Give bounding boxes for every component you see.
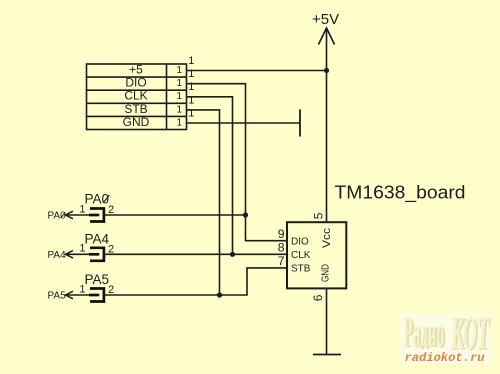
connector J1 row labels <box>123 62 150 129</box>
wire DIO from table to chip pin 9 <box>187 84 288 241</box>
node PA4 arrow <box>66 251 74 259</box>
connector PA0 symbol <box>89 209 104 222</box>
svg-text:PA4: PA4 <box>85 231 110 246</box>
junction +5 wire / +5V net <box>324 68 329 73</box>
junction STB / PA5 <box>217 292 222 297</box>
svg-text:PA0: PA0 <box>85 191 110 206</box>
wire STB from table down <box>187 110 220 295</box>
connector PA5 symbol <box>89 289 104 302</box>
svg-text:1: 1 <box>79 243 85 255</box>
svg-text:CLK: CLK <box>291 250 311 261</box>
svg-text:PA0: PA0 <box>48 211 67 222</box>
svg-text:PA5: PA5 <box>48 291 67 302</box>
svg-text:1: 1 <box>79 203 85 215</box>
svg-text:5: 5 <box>311 212 325 219</box>
wire Vcc vertical +5V to chip pin 5 <box>326 28 328 222</box>
connector J1 pad column 1s <box>176 65 182 128</box>
IC U1 body <box>287 222 346 288</box>
svg-text:8: 8 <box>278 240 285 254</box>
logo watermark box <box>400 314 493 364</box>
wire PA0 to DIO junction <box>104 214 246 216</box>
svg-text:+5: +5 <box>129 62 143 76</box>
svg-text:CLK: CLK <box>124 89 147 103</box>
svg-text:9: 9 <box>278 227 285 241</box>
svg-text:1: 1 <box>176 65 182 76</box>
connector PA4 symbol <box>89 248 104 261</box>
svg-text:1: 1 <box>176 91 182 102</box>
svg-text:STB: STB <box>124 102 147 116</box>
wire PA4 to chip pin 8 CLK <box>104 253 287 255</box>
svg-text:DIO: DIO <box>125 76 146 90</box>
wire GND row stub <box>187 122 301 124</box>
node PA0 arrow <box>66 211 74 219</box>
svg-text:+5V: +5V <box>312 11 339 28</box>
wire PA5 jog to chip pin 7 STB <box>104 268 287 295</box>
wire +5 row to +5V net <box>187 70 327 72</box>
node PA5 arrow <box>66 291 74 299</box>
svg-text:6: 6 <box>311 294 325 301</box>
svg-text:radiokot.ru: radiokot.ru <box>405 351 485 365</box>
GND stub end bar <box>299 110 301 137</box>
wire CLK from table down <box>187 97 233 255</box>
svg-text:1: 1 <box>188 55 194 67</box>
wire PA0 left <box>66 214 90 216</box>
ground bar <box>313 354 341 356</box>
svg-text:1: 1 <box>176 78 182 89</box>
svg-text:GND: GND <box>123 115 150 129</box>
wire PA4 left <box>66 253 90 255</box>
svg-text:1: 1 <box>176 104 182 115</box>
svg-text:STB: STB <box>291 264 311 275</box>
logo Radio text shadow <box>404 309 446 357</box>
svg-text:TM1638_board: TM1638_board <box>335 182 466 203</box>
wire GND chip to ground <box>326 288 328 354</box>
connector PA0 zero slash <box>103 195 109 203</box>
svg-text:Vcc: Vcc <box>321 227 333 248</box>
power +5V arrow <box>319 28 335 45</box>
connector J1 table frame <box>87 64 187 130</box>
svg-text:DIO: DIO <box>291 237 309 248</box>
connector J1 pin number 1s outside <box>188 55 194 119</box>
junction CLK / PA4 <box>230 252 235 257</box>
svg-text:1: 1 <box>79 283 85 295</box>
junction DIO / PA0 <box>243 212 248 217</box>
svg-text:PA4: PA4 <box>48 250 67 261</box>
svg-text:Радио: Радио <box>404 309 445 356</box>
svg-text:1: 1 <box>176 117 182 128</box>
svg-text:GND: GND <box>320 264 332 282</box>
svg-text:PA5: PA5 <box>85 272 110 287</box>
wire PA5 left <box>66 294 90 296</box>
svg-text:7: 7 <box>278 254 285 268</box>
node PA0 small zero slash <box>61 212 65 218</box>
